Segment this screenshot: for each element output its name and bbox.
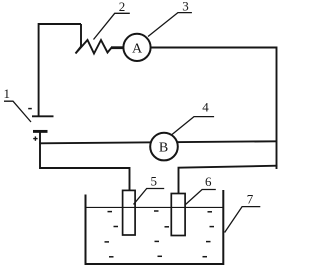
resistor R2 (zigzag, item 2) bbox=[76, 40, 112, 54]
wire: drop from top-left run down to resistor bbox=[80, 24, 82, 47]
label 2 (resistor callout) bbox=[94, 0, 130, 40]
label 4 (voltmeter callout) bbox=[172, 100, 214, 135]
svg-text:4: 4 bbox=[202, 100, 209, 115]
label 1 (battery callout) bbox=[3, 86, 31, 122]
wire: voltmeter branch (battery+ to right rail) bbox=[39, 141, 277, 143]
wire: battery negative terminal up to top-left corner bbox=[39, 24, 81, 116]
svg-text:3: 3 bbox=[182, 0, 189, 13]
beaker 7 (electrolytic cell walls) bbox=[86, 190, 224, 264]
liquid dashes bbox=[105, 211, 215, 257]
wire: ammeter to top-right corner bbox=[150, 47, 277, 49]
wire: lower-right rail to electrode 6 branch bbox=[179, 166, 278, 195]
liquid surface line bbox=[86, 206, 224, 208]
battery positive sign bbox=[33, 136, 37, 140]
label 3 (ammeter callout) bbox=[148, 0, 192, 37]
label 5 (left electrode callout) bbox=[134, 174, 165, 205]
wire: resistor to ammeter (short thick lead) bbox=[111, 46, 123, 49]
battery negative sign bbox=[28, 108, 32, 110]
label 6 (right electrode callout) bbox=[186, 174, 216, 205]
battery G1 bottom plate (positive, short thick) bbox=[33, 130, 48, 133]
svg-text:6: 6 bbox=[205, 174, 212, 189]
battery G1 (cell, item 1) top plate (negative, long) bbox=[32, 115, 54, 117]
svg-text:2: 2 bbox=[119, 0, 126, 14]
ammeter U1 "A" (item 3) bbox=[123, 34, 150, 61]
svg-text:B: B bbox=[159, 141, 168, 156]
electrode 6 (right plate in cell) bbox=[171, 194, 185, 236]
wire: right rail down bbox=[276, 47, 278, 170]
svg-text:A: A bbox=[132, 41, 143, 56]
svg-text:7: 7 bbox=[247, 192, 254, 207]
electrode 5 (left plate in cell) bbox=[123, 190, 136, 235]
label 7 (beaker callout) bbox=[225, 192, 261, 233]
svg-text:1: 1 bbox=[3, 86, 10, 101]
wire: battery positive down to lower-left rail and electrode 5 branch bbox=[40, 132, 130, 192]
voltmeter U2 "B" (item 4) bbox=[150, 133, 178, 161]
svg-text:5: 5 bbox=[151, 174, 158, 189]
